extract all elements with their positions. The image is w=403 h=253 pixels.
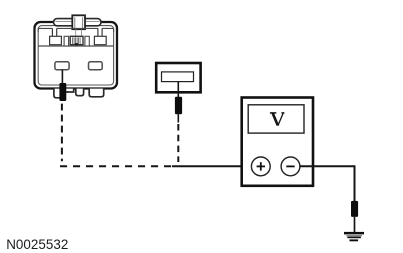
connector C1 center keyway block [70, 36, 83, 45]
ground G1 [344, 232, 364, 241]
voltmeter V1 minus terminal [281, 157, 300, 176]
connector C1 top latch rail [54, 19, 101, 26]
connector C1 inner shelf line [38, 28, 113, 32]
connector C1 bottom tab middle [76, 89, 84, 96]
test probe P3 [351, 201, 358, 217]
wire from minus terminal to ground drop [300, 166, 355, 201]
voltmeter V1 body [242, 98, 313, 186]
wire dashed vertical from P2 [177, 124, 179, 162]
wire dashed vertical from P1 [61, 104, 63, 162]
connector C1 tooth slot left [64, 36, 69, 46]
wire F1 lead [177, 82, 179, 98]
wire solid to voltmeter plus [172, 165, 252, 167]
connector C1 tooth slot right [85, 36, 89, 46]
fuse F1 [156, 63, 200, 92]
connector C1 latch tab [72, 15, 85, 36]
wire stub to ground [354, 217, 356, 232]
connector C1 bottom tab right [89, 89, 104, 97]
connector C1 bottom tab left [54, 89, 74, 98]
connector C1 terminal row baseline [38, 45, 113, 47]
connector C1 pin cavity 1 [55, 62, 69, 70]
wire dashed horizontal to voltmeter [60, 165, 172, 167]
test probe P2 [175, 97, 182, 114]
voltmeter V1 plus terminal [251, 157, 270, 176]
test probe P1 [59, 83, 66, 101]
figure number label N0025532 [6, 237, 68, 252]
connector C1 pin cavity 2 [89, 62, 103, 70]
connector C1 body [35, 22, 118, 89]
voltmeter V1 display [248, 105, 304, 133]
wire pin1 lead [61, 70, 63, 84]
connector C1 left ear [50, 28, 62, 44]
wire stub below P2 [177, 114, 179, 122]
connector C1 right ear [94, 28, 106, 44]
